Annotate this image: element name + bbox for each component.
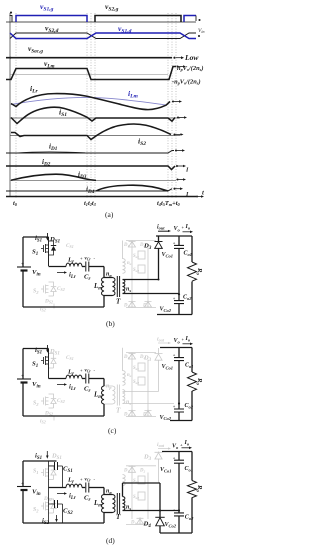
svg-text:T: T xyxy=(116,298,121,306)
capacitor Co1 xyxy=(174,460,184,463)
battery Vin xyxy=(17,266,31,268)
svg-text:VCo2: VCo2 xyxy=(165,522,177,528)
wire: next-cycle vS1,g pulse xyxy=(184,16,196,23)
svg-text:Co1: Co1 xyxy=(185,466,194,472)
capacitor Co2 xyxy=(174,409,184,412)
svg-text:DS2: DS2 xyxy=(44,299,53,305)
transformer core T xyxy=(117,493,119,514)
wire down to transformer xyxy=(103,488,105,495)
wire left rail lower xyxy=(22,271,24,308)
wire: iLr trace xyxy=(11,94,182,110)
svg-text:Sa2: Sa2 xyxy=(133,495,139,500)
wire caps rail xyxy=(178,236,180,245)
wire down to transformer xyxy=(103,267,105,278)
svg-text:Vo: Vo xyxy=(174,338,181,344)
svg-text:+: + xyxy=(173,296,176,301)
wire caps rail bottom xyxy=(178,516,180,533)
svg-text:VCo1: VCo1 xyxy=(162,252,174,258)
capacitor CS1 xyxy=(55,462,58,470)
wire caps rail mid xyxy=(178,463,180,513)
svg-text:iS2: iS2 xyxy=(40,419,46,425)
wire: iD4 trace xyxy=(96,185,168,191)
capacitor Cr xyxy=(86,483,89,493)
svg-text:np: np xyxy=(106,384,112,390)
battery Vin xyxy=(17,486,31,488)
node mid junction xyxy=(178,402,180,404)
svg-text:ns: ns xyxy=(126,400,131,406)
node iD4 zero line xyxy=(6,187,183,191)
battery Vin xyxy=(17,378,31,380)
svg-text:T: T xyxy=(116,513,121,521)
wire top rail xyxy=(23,236,49,238)
wire caps rail bottom xyxy=(178,412,180,421)
svg-text:VCo2: VCo2 xyxy=(160,307,172,313)
svg-text:+: + xyxy=(80,368,83,373)
svg-text:(b): (b) xyxy=(106,319,115,328)
wire Lm bottom to rail xyxy=(103,404,105,416)
resistor Ro xyxy=(188,481,197,498)
svg-text:na: na xyxy=(127,373,132,378)
wire down to Lm xyxy=(103,379,105,387)
ghost top wire xyxy=(126,352,156,354)
wire: iS1 trace xyxy=(11,107,187,123)
svg-text:+: + xyxy=(182,225,185,230)
svg-text:Io: Io xyxy=(185,336,191,342)
winding np xyxy=(113,278,115,296)
svg-text:ns: ns xyxy=(126,287,131,293)
svg-text:VCo1: VCo1 xyxy=(162,364,174,370)
ghost diode top xyxy=(129,353,136,360)
wire: time axis xyxy=(6,195,204,198)
wire: iD3 trace xyxy=(11,174,186,181)
capacitor Cr xyxy=(86,374,89,384)
wire bottom rail xyxy=(23,522,104,524)
ghost switch box 2 xyxy=(138,492,145,500)
ghost bottom wire xyxy=(126,416,156,418)
ghost diode top xyxy=(129,241,136,248)
ghost S2 mosfet xyxy=(41,282,56,296)
svg-text:(d): (d) xyxy=(106,536,115,545)
ghost rail right xyxy=(147,248,149,302)
ghost diode D3 xyxy=(155,348,163,392)
wire caps rail xyxy=(178,452,180,461)
svg-text:npVo/(2ns): npVo/(2ns) xyxy=(177,65,203,72)
wire: gate row baseline xyxy=(6,21,196,23)
inductor Lr xyxy=(66,263,82,266)
svg-text:vCr: vCr xyxy=(85,257,92,262)
ghost switch box 2 xyxy=(138,265,145,273)
svg-text:+: + xyxy=(21,374,24,380)
wire output bottom rail xyxy=(157,314,192,316)
ghost diode bottom 2 xyxy=(145,410,152,417)
node mid junction xyxy=(178,509,180,511)
dashed gridlines t4 t5 Tm xyxy=(168,13,176,198)
svg-text:D1: D1 xyxy=(123,469,129,474)
svg-text:Co1: Co1 xyxy=(185,363,194,369)
wire top rail xyxy=(23,348,49,350)
svg-text:+: + xyxy=(173,455,176,460)
left axis xyxy=(9,13,11,196)
transistor S1 xyxy=(41,244,49,253)
ghost aux winding xyxy=(123,348,126,386)
wire output bottom rail xyxy=(170,420,192,422)
svg-text:na: na xyxy=(127,261,132,266)
ghost diode bottom 1 xyxy=(129,410,136,417)
svg-text:S2: S2 xyxy=(33,289,39,295)
svg-text:(c): (c) xyxy=(108,426,117,435)
svg-text:Low: Low xyxy=(184,53,199,62)
svg-text:D2: D2 xyxy=(142,413,148,418)
wire transformer top/bottom xyxy=(104,278,113,308)
svg-text:+: + xyxy=(182,337,185,342)
svg-text:+: + xyxy=(180,443,183,448)
capacitor Co2 xyxy=(174,301,184,304)
inductor Lr xyxy=(66,375,82,378)
label iLr + arrow xyxy=(57,272,64,274)
wire caps rail mid xyxy=(178,361,180,409)
ghost top wire xyxy=(126,465,156,467)
ghost network gray xyxy=(41,348,174,417)
capacitor Cr xyxy=(86,262,89,272)
wire: iLm trace (light blue) xyxy=(11,97,166,105)
wire top rail xyxy=(23,460,57,462)
wire left rail upper xyxy=(22,237,24,267)
svg-text:D1: D1 xyxy=(123,304,129,309)
wire mid rail xyxy=(49,487,67,489)
svg-text:+: + xyxy=(173,353,176,358)
svg-text:Co2: Co2 xyxy=(183,295,192,301)
inductor Lm xyxy=(102,386,104,404)
wire ns top to D3 xyxy=(123,248,159,279)
svg-text:+: + xyxy=(173,508,176,513)
ghost switch box 1 xyxy=(138,363,145,371)
svg-text:D1: D1 xyxy=(130,521,136,526)
wire output top rail xyxy=(156,235,192,237)
dashed gridline t0 xyxy=(15,13,17,198)
wire: vS2,d trace (black) xyxy=(10,33,196,39)
ghost diode bottom 1 xyxy=(137,517,144,524)
wire: vSac,g low line xyxy=(6,56,184,59)
wire bottom rail xyxy=(23,306,104,308)
svg-text:Io: Io xyxy=(185,224,191,230)
node prev gate fall at t0 xyxy=(10,16,13,23)
ghost ns top wire xyxy=(123,391,159,393)
svg-text:S1: S1 xyxy=(33,469,38,475)
wire ns top riser xyxy=(123,483,161,517)
wire right rail xyxy=(191,452,193,534)
ghost diode top xyxy=(129,465,136,472)
ghost diode D3 xyxy=(155,452,163,484)
wire left rail lower xyxy=(22,490,24,523)
wire: iD1 line xyxy=(6,149,185,153)
wire: iS2 trace xyxy=(11,124,184,139)
wire caps rail bottom xyxy=(178,304,180,315)
svg-text:Vo: Vo xyxy=(172,444,179,450)
svg-text:VCo1: VCo1 xyxy=(160,467,172,473)
svg-text:iout: iout xyxy=(157,337,165,343)
svg-text:CS2: CS2 xyxy=(57,286,65,292)
svg-text:D2: D2 xyxy=(139,469,145,474)
svg-text:+: + xyxy=(21,262,24,268)
wire S1 channel xyxy=(48,349,50,379)
svg-text:Sa2: Sa2 xyxy=(133,268,139,273)
winding np xyxy=(113,495,115,513)
svg-text:+: + xyxy=(173,404,176,409)
ghost rail left xyxy=(131,360,133,414)
wire right rail xyxy=(191,236,193,315)
wire xyxy=(82,266,85,268)
ghost S1 mosfet xyxy=(41,468,49,477)
ghost winding ns xyxy=(123,390,125,404)
wire right rail xyxy=(191,348,193,421)
diode D4 xyxy=(155,516,164,518)
ghost switch box 2 xyxy=(138,377,145,385)
wire: vS1,d trace (blue) xyxy=(10,33,196,39)
transistor S1 xyxy=(41,356,49,365)
svg-text:D1: D1 xyxy=(123,413,129,418)
svg-text:Io: Io xyxy=(184,440,190,446)
resistor Ro xyxy=(188,262,197,281)
wire output top rail xyxy=(160,347,192,349)
wire left rail upper xyxy=(22,349,24,380)
svg-text:t4t5Tm+t0: t4t5Tm+t0 xyxy=(157,200,181,207)
node mid junction xyxy=(178,293,180,295)
wire S1 channel xyxy=(48,237,50,266)
svg-text:Sa1: Sa1 xyxy=(133,366,139,371)
label iLr + arrow xyxy=(57,384,64,386)
ghost transformer stubs xyxy=(104,386,113,404)
diode DS1 xyxy=(49,241,54,255)
dashed gridlines t1 t2 t3 xyxy=(87,13,95,198)
svg-text:Vin: Vin xyxy=(198,28,205,34)
wire caps rail xyxy=(178,348,180,358)
wire mid rail xyxy=(49,266,67,268)
wire: iD2 line xyxy=(6,165,186,170)
wire ns bottom to mid node xyxy=(123,510,180,512)
wire xyxy=(82,487,85,489)
ghost switch box 1 xyxy=(138,251,145,259)
svg-text:CS1: CS1 xyxy=(66,243,74,249)
svg-text:D1: D1 xyxy=(123,243,129,248)
ghost bottom wire xyxy=(126,307,156,309)
ghost switch box 1 xyxy=(138,476,145,484)
ghost aux winding xyxy=(123,241,126,274)
wire: vLm trace xyxy=(6,65,186,79)
capacitor Co1 xyxy=(174,245,184,248)
ghost rail right xyxy=(147,473,149,520)
ghost rail left xyxy=(131,473,133,520)
ghost diode DS1 xyxy=(49,354,57,369)
winding ns xyxy=(123,497,125,511)
wire xyxy=(82,378,85,380)
diode D3 xyxy=(155,241,163,243)
wire ns bottom to mid node xyxy=(123,293,180,295)
svg-text:D2: D2 xyxy=(142,304,148,309)
svg-text:+: + xyxy=(21,481,24,487)
transformer core T xyxy=(117,276,119,297)
inductor Lm xyxy=(102,495,104,513)
inductor Lm xyxy=(102,278,104,296)
svg-text:S2: S2 xyxy=(33,507,39,513)
wire transformer top/bottom xyxy=(104,495,113,524)
ghost network gray xyxy=(41,452,163,525)
wire left rail lower xyxy=(22,383,24,417)
svg-text:VCo2: VCo2 xyxy=(160,415,172,421)
svg-text:-npVo/(2ns): -npVo/(2ns) xyxy=(172,79,201,86)
capacitor CS2 xyxy=(55,500,58,508)
ghost diode bottom 2 xyxy=(145,301,152,308)
ghost network gray xyxy=(123,241,157,308)
svg-text:vCr: vCr xyxy=(85,369,92,374)
ghost top wire xyxy=(126,240,156,242)
wire mid rail xyxy=(49,378,67,380)
svg-text:vCr: vCr xyxy=(85,478,92,483)
svg-text:DS2: DS2 xyxy=(43,496,52,502)
svg-text:S2: S2 xyxy=(33,401,39,407)
node vLm zero axis xyxy=(10,74,168,76)
svg-text:CS1: CS1 xyxy=(66,355,74,361)
wire output bottom rail xyxy=(160,532,192,534)
inductor Lr xyxy=(66,484,82,487)
capacitor Co1 xyxy=(174,358,184,361)
wire caps rail mid xyxy=(178,248,180,300)
svg-text:+: + xyxy=(80,256,83,261)
wire left rail upper xyxy=(22,461,24,487)
svg-text:iout: iout xyxy=(157,442,165,448)
wire output top rail xyxy=(162,451,192,453)
ghost ns bottom wire xyxy=(123,403,175,405)
svg-text:Co2: Co2 xyxy=(185,403,194,409)
svg-text:D1: D1 xyxy=(123,355,129,360)
svg-text:Co2: Co2 xyxy=(185,515,194,521)
ghost diode bottom 1 xyxy=(129,301,136,308)
ghost rail left xyxy=(131,248,133,302)
node iS2 zero line xyxy=(10,135,180,137)
svg-text:Vo: Vo xyxy=(174,226,181,232)
ghost S2 mosfet xyxy=(41,397,49,406)
ghost rail right xyxy=(147,360,149,414)
node iS1 zero line xyxy=(10,117,180,119)
wire: vS1,g pulse (blue) xyxy=(16,16,87,23)
label iLr + arrow xyxy=(57,493,64,495)
node iD3 zero line xyxy=(10,179,176,181)
svg-text:T: T xyxy=(116,407,121,415)
ghost aux winding xyxy=(123,475,126,486)
svg-text:CS2: CS2 xyxy=(57,398,65,404)
svg-text:+: + xyxy=(173,241,176,246)
wire bottom rail xyxy=(23,415,104,417)
wire S1 channel xyxy=(48,461,50,488)
svg-text:Co1: Co1 xyxy=(184,251,193,257)
ghost transformer core xyxy=(117,385,119,406)
ghost bottom wire xyxy=(126,524,150,526)
capacitor Co2 xyxy=(174,513,184,516)
wire S2 channel xyxy=(48,488,50,524)
svg-text:Sa2: Sa2 xyxy=(133,380,139,385)
wire: vS2,g pulse (black) xyxy=(95,16,181,23)
ghost S2 mosfet xyxy=(41,502,49,511)
svg-text:(a): (a) xyxy=(105,210,114,219)
ghost winding np xyxy=(113,386,115,404)
svg-text:Sa1: Sa1 xyxy=(133,254,139,259)
ghost diode DS1 xyxy=(49,466,57,480)
svg-text:+: + xyxy=(80,477,83,482)
winding ns xyxy=(123,280,125,294)
resistor Ro xyxy=(188,372,197,391)
svg-text:iout: iout xyxy=(157,225,165,231)
